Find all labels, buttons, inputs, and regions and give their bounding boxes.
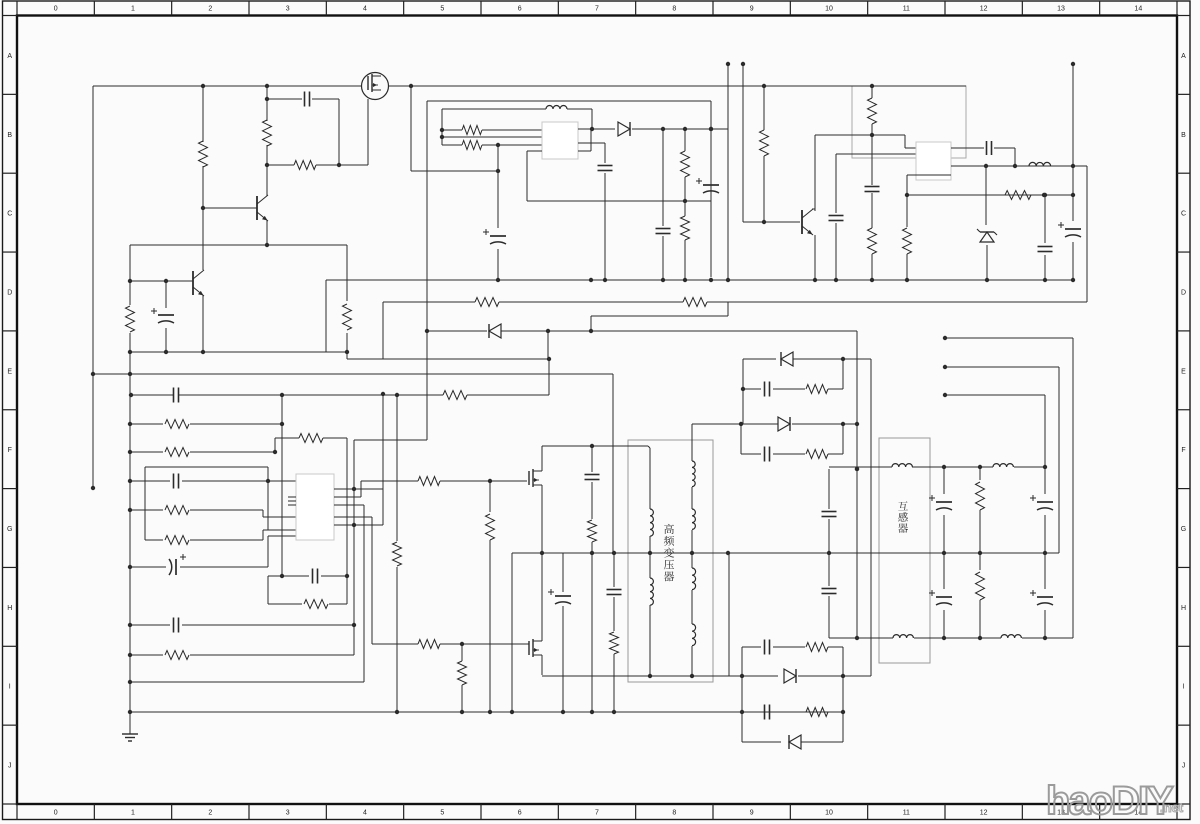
svg-text:H: H: [1181, 605, 1186, 612]
svg-text:2: 2: [208, 6, 212, 13]
svg-text:2: 2: [208, 810, 212, 817]
svg-text:4: 4: [363, 810, 367, 817]
svg-text:10: 10: [825, 810, 833, 817]
svg-text:6: 6: [518, 810, 522, 817]
svg-text:D: D: [1181, 289, 1186, 296]
svg-text:12: 12: [980, 810, 988, 817]
svg-text:.net: .net: [1160, 800, 1184, 815]
svg-text:5: 5: [440, 6, 444, 13]
svg-text:I: I: [1183, 684, 1185, 691]
svg-text:A: A: [1181, 53, 1186, 60]
svg-text:A: A: [7, 53, 12, 60]
svg-text:12: 12: [980, 6, 988, 13]
svg-text:haoDIY: haoDIY: [1046, 779, 1174, 823]
svg-text:4: 4: [363, 6, 367, 13]
svg-text:9: 9: [750, 810, 754, 817]
svg-text:G: G: [7, 526, 12, 533]
svg-text:13: 13: [1057, 6, 1065, 13]
svg-text:C: C: [1181, 211, 1186, 218]
svg-text:E: E: [1181, 368, 1186, 375]
svg-text:1: 1: [131, 6, 135, 13]
svg-text:F: F: [8, 447, 12, 454]
svg-text:6: 6: [518, 6, 522, 13]
svg-text:F: F: [1181, 447, 1185, 454]
svg-text:9: 9: [750, 6, 754, 13]
svg-text:7: 7: [595, 810, 599, 817]
svg-text:3: 3: [286, 810, 290, 817]
svg-text:8: 8: [672, 6, 676, 13]
svg-text:7: 7: [595, 6, 599, 13]
svg-text:G: G: [1181, 526, 1186, 533]
svg-text:5: 5: [440, 810, 444, 817]
svg-text:0: 0: [54, 810, 58, 817]
svg-text:11: 11: [903, 6, 910, 13]
svg-text:1: 1: [131, 810, 135, 817]
svg-text:10: 10: [825, 6, 833, 13]
svg-text:11: 11: [903, 810, 910, 817]
svg-text:B: B: [1181, 132, 1186, 139]
svg-text:J: J: [1182, 763, 1186, 770]
svg-text:J: J: [8, 763, 12, 770]
svg-text:8: 8: [672, 810, 676, 817]
svg-text:C: C: [7, 211, 12, 218]
svg-text:I: I: [9, 684, 11, 691]
svg-text:3: 3: [286, 6, 290, 13]
svg-text:B: B: [7, 132, 12, 139]
svg-text:14: 14: [1134, 6, 1142, 13]
svg-text:H: H: [7, 605, 12, 612]
svg-text:0: 0: [54, 6, 58, 13]
svg-text:D: D: [7, 289, 12, 296]
svg-text:E: E: [7, 368, 12, 375]
